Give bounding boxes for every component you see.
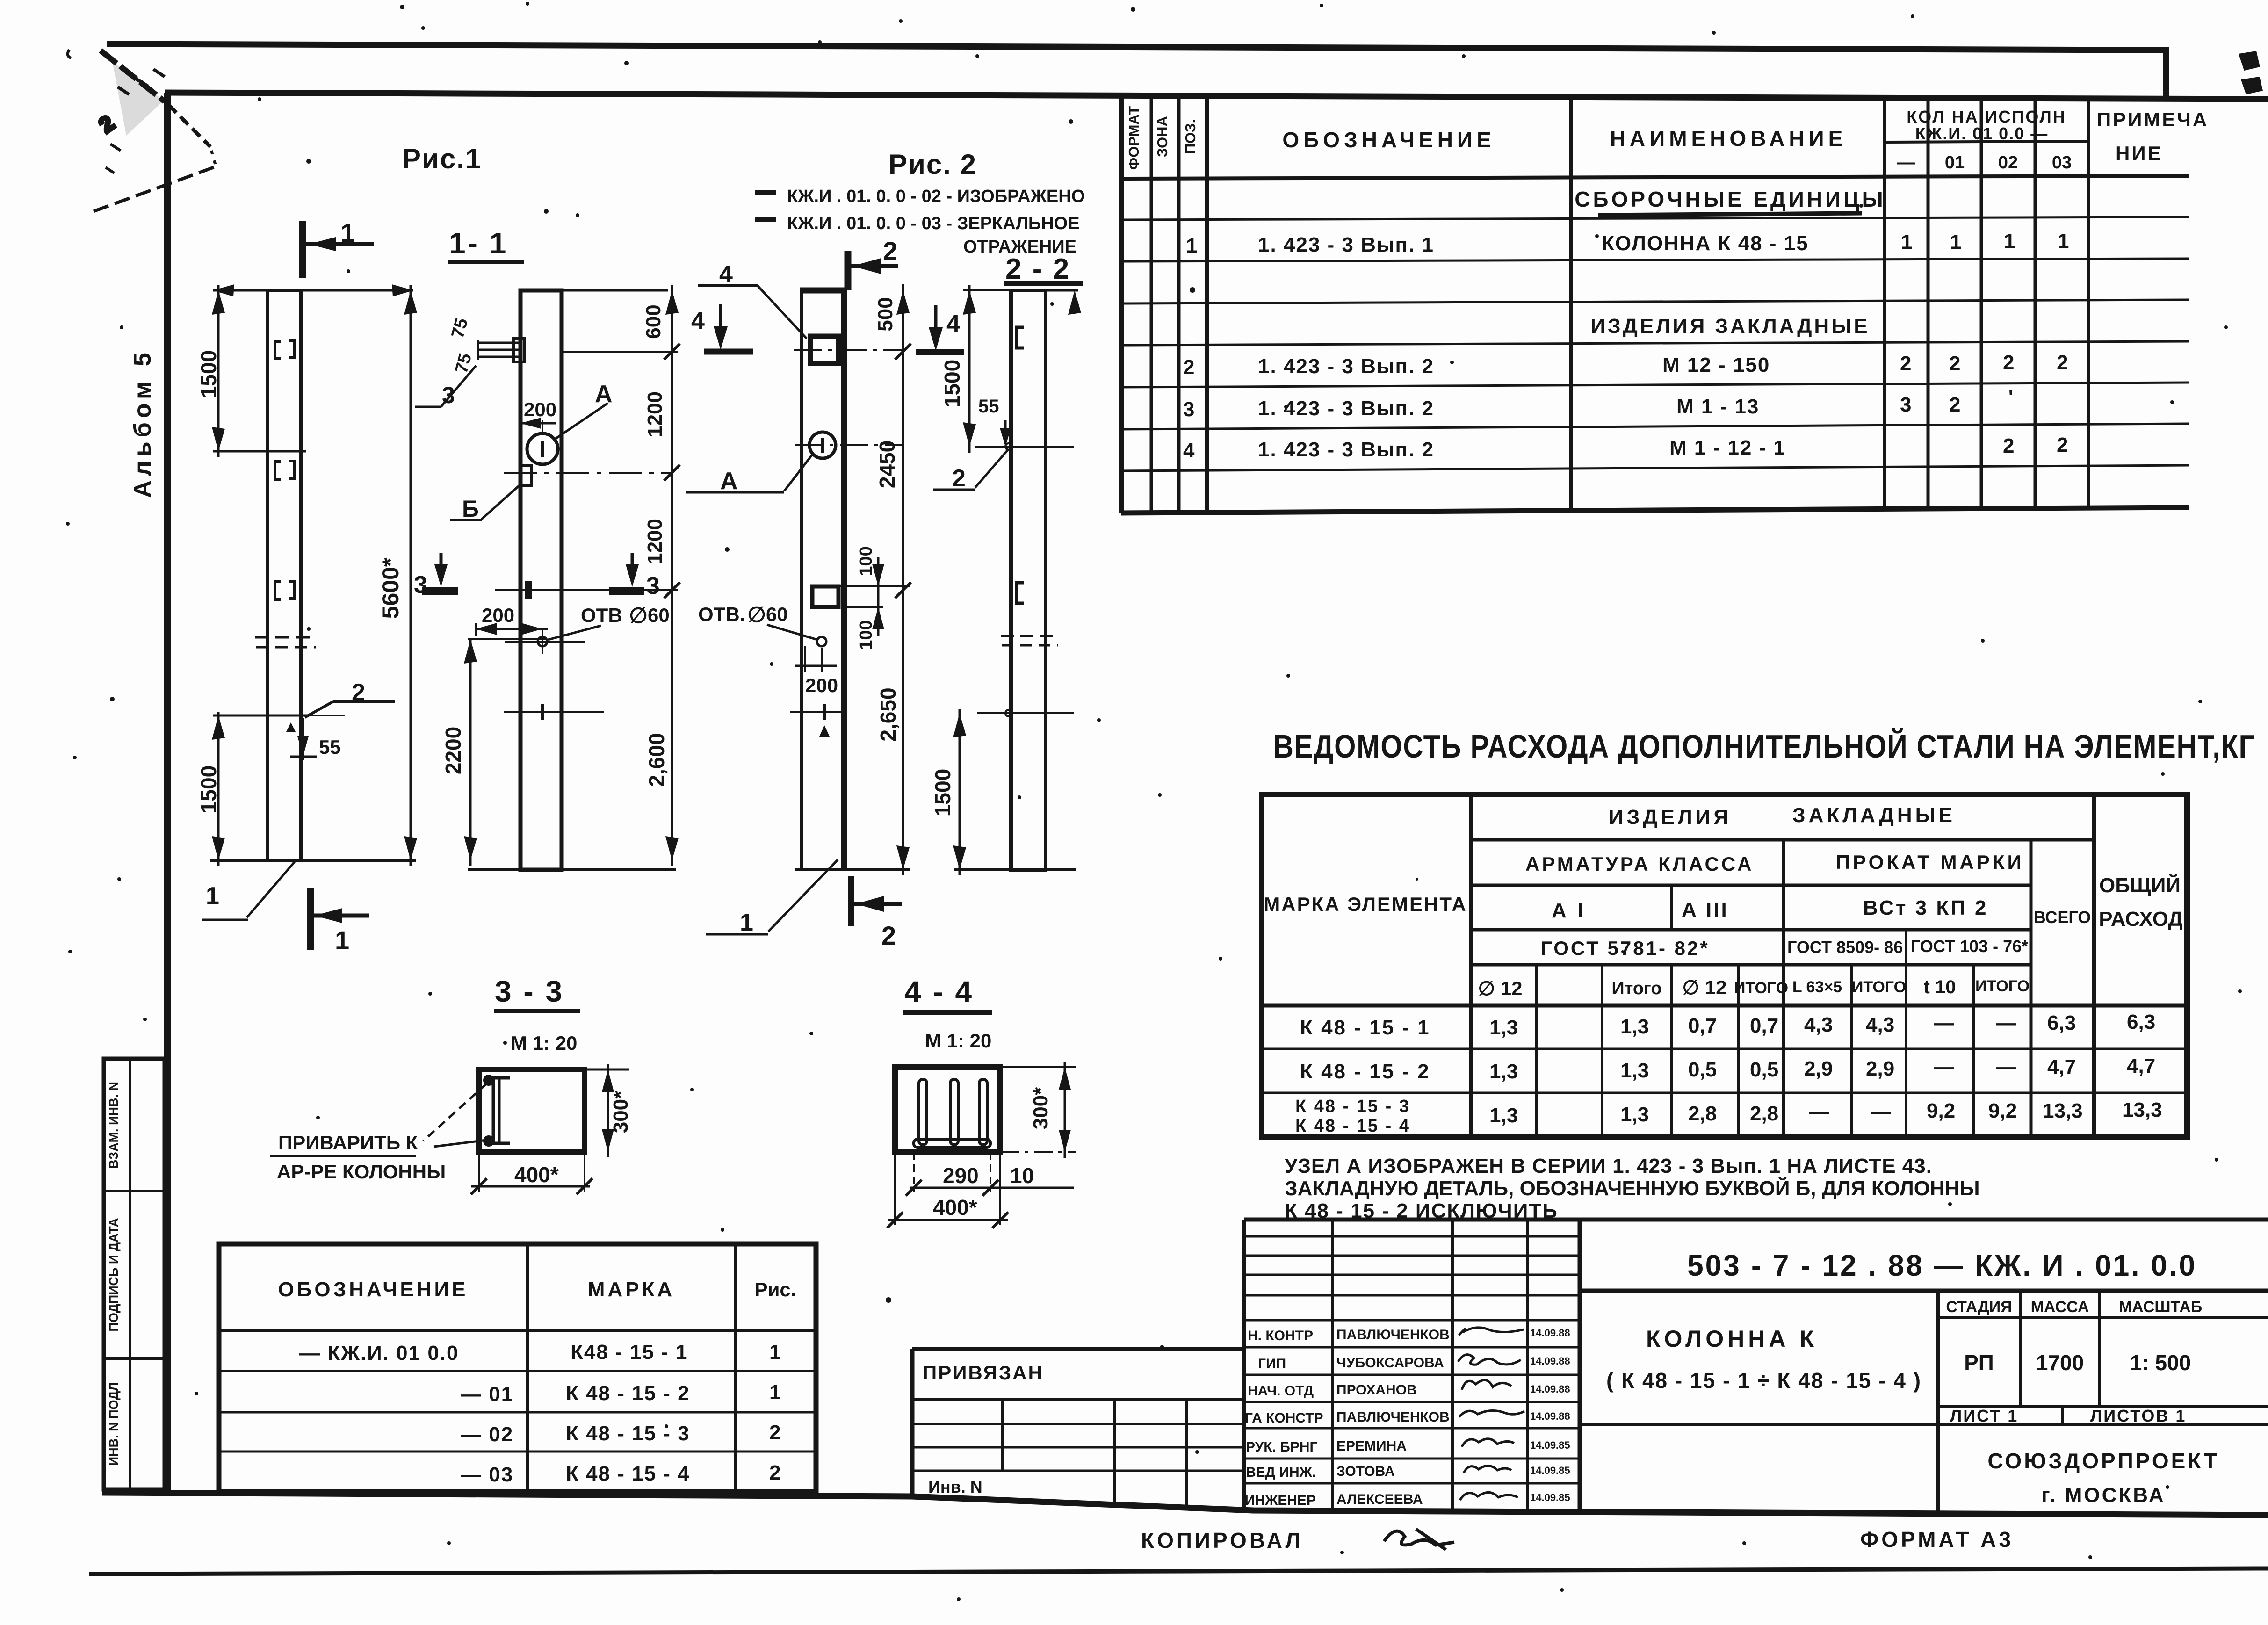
svg-text:КОПИРОВАЛ: КОПИРОВАЛ xyxy=(1141,1528,1303,1553)
svg-text:4,3: 4,3 xyxy=(1804,1013,1833,1036)
node A circle ris2 xyxy=(809,432,836,458)
svg-text:КЖ.И . 01. 0. 0 - 02 - ИЗОБРАЖ: КЖ.И . 01. 0. 0 - 02 - ИЗОБРАЖЕНО xyxy=(787,187,1085,206)
svg-text:Рис. 2: Рис. 2 xyxy=(888,149,977,180)
signature grid xyxy=(1578,1220,1582,1513)
svg-text:4,3: 4,3 xyxy=(1866,1013,1894,1036)
svg-text:ИТОГО: ИТОГО xyxy=(1734,979,1788,997)
svg-text:К48 - 15 - 1: К48 - 15 - 1 xyxy=(571,1341,688,1364)
svg-text:2: 2 xyxy=(2003,351,2014,374)
section mark 1 bottom xyxy=(307,888,314,950)
embedded mark pair top xyxy=(275,341,295,599)
svg-text:ГИП: ГИП xyxy=(1258,1356,1286,1372)
svg-text:ОБЩИЙ: ОБЩИЙ xyxy=(2099,873,2181,897)
svg-text:13,3: 13,3 xyxy=(2122,1098,2162,1121)
svg-text:300*: 300* xyxy=(609,1091,632,1133)
section mark 1 top xyxy=(299,221,306,278)
leader 3 xyxy=(415,406,441,408)
svg-text:—: — xyxy=(1934,1011,1954,1034)
section mark 4 right xyxy=(934,305,938,346)
svg-text:СБОРОЧНЫЕ ЕДИНИЦЫ: СБОРОЧНЫЕ ЕДИНИЦЫ xyxy=(1575,187,1885,211)
svg-text:ГОСТ 8509- 86: ГОСТ 8509- 86 xyxy=(1787,938,1903,957)
svg-text:2: 2 xyxy=(769,1421,780,1444)
svg-text:АР-РЕ КОЛОННЫ: АР-РЕ КОЛОННЫ xyxy=(277,1161,446,1183)
svg-text:г. МОСКВА: г. МОСКВА xyxy=(2041,1484,2165,1507)
svg-text:1: 1 xyxy=(2058,230,2069,253)
svg-text:13,3: 13,3 xyxy=(2043,1099,2083,1122)
svg-text:2: 2 xyxy=(883,236,897,266)
svg-text:∅: ∅ xyxy=(629,603,648,628)
svg-text:1: 1 xyxy=(1901,231,1912,253)
svg-text:1500: 1500 xyxy=(196,766,221,813)
kol sub divider xyxy=(1885,141,2088,142)
svg-text:2,8: 2,8 xyxy=(1750,1102,1778,1125)
svg-text:1: 1 xyxy=(740,909,753,936)
svg-text:ВЕД ИНЖ.: ВЕД ИНЖ. xyxy=(1246,1465,1316,1480)
svg-text:А: А xyxy=(595,381,613,408)
signature rows text xyxy=(1245,1327,1450,1508)
svg-text:ЧУБОКСАРОВА: ЧУБОКСАРОВА xyxy=(1336,1355,1444,1371)
svg-text:НАИМЕНОВАНИЕ: НАИМЕНОВАНИЕ xyxy=(1610,126,1847,151)
svg-text:1,3: 1,3 xyxy=(1620,1059,1649,1082)
stadia massa masshtab xyxy=(1938,1316,2268,1319)
svg-text:—: — xyxy=(1996,1011,2016,1034)
right dim chain 600 1200 1200 2600 xyxy=(671,285,673,866)
dim 1500 upper vertical xyxy=(217,285,220,457)
svg-text:01: 01 xyxy=(1945,153,1965,173)
svg-text:2: 2 xyxy=(881,921,896,950)
dim 5600 right vertical xyxy=(410,285,412,866)
svg-text:100: 100 xyxy=(856,620,876,650)
bolts top left pos 3 xyxy=(478,339,525,362)
svg-text:6,3: 6,3 xyxy=(2047,1011,2076,1034)
svg-text:ИТОГО: ИТОГО xyxy=(1852,978,1906,996)
svg-text:4: 4 xyxy=(946,311,960,338)
svg-text:200: 200 xyxy=(482,604,514,626)
leader 1 bottom xyxy=(247,862,295,917)
svg-text:14.09.85: 14.09.85 xyxy=(1530,1465,1570,1476)
svg-text:5600*: 5600* xyxy=(377,557,404,619)
bottom line of elevation dim xyxy=(210,859,416,862)
svg-text:1,3: 1,3 xyxy=(1489,1060,1518,1083)
svg-text:АРМАТУРА КЛАССА: АРМАТУРА КЛАССА xyxy=(1525,853,1754,875)
svg-text:— 03: — 03 xyxy=(461,1463,513,1486)
svg-text:ФОРМАТ: ФОРМАТ xyxy=(1126,106,1142,170)
signatures squiggles xyxy=(1458,1328,1524,1500)
svg-text:3: 3 xyxy=(442,382,455,408)
svg-text:—: — xyxy=(1996,1055,2016,1078)
svg-text:ГА КОНСТР: ГА КОНСТР xyxy=(1245,1410,1323,1426)
wire frame top border xyxy=(165,93,2268,99)
svg-text:2: 2 xyxy=(1900,352,1911,375)
svg-text:9,2: 9,2 xyxy=(1988,1099,2017,1122)
svg-text:t 10: t 10 xyxy=(1924,977,1956,997)
svg-text:1,3: 1,3 xyxy=(1620,1015,1649,1038)
level triangle mark xyxy=(286,722,296,732)
svg-text:14.09.88: 14.09.88 xyxy=(1530,1355,1570,1367)
svg-text:МАРКА: МАРКА xyxy=(588,1278,675,1301)
horizontals xyxy=(1471,838,2094,842)
svg-text:1,3: 1,3 xyxy=(1620,1103,1649,1126)
svg-text:1: 1 xyxy=(1950,231,1961,253)
svg-text:60: 60 xyxy=(766,603,788,625)
bottom captions xyxy=(1141,1527,2014,1553)
svg-text:ЗОНА: ЗОНА xyxy=(1154,116,1170,157)
svg-text:Н. КОНТР: Н. КОНТР xyxy=(1248,1328,1313,1343)
wire bottom outer long line xyxy=(89,1568,2268,1574)
svg-text:1. 423 - 3 Вып. 2: 1. 423 - 3 Вып. 2 xyxy=(1258,397,1434,420)
svg-text:': ' xyxy=(2008,387,2013,407)
svg-text:Б: Б xyxy=(462,496,479,522)
svg-text:Рис.: Рис. xyxy=(755,1278,796,1300)
svg-text:ИНВ. N ПОДЛ: ИНВ. N ПОДЛ xyxy=(107,1382,121,1466)
legend line 2 xyxy=(755,217,776,222)
svg-text:ОБОЗНАЧЕНИЕ: ОБОЗНАЧЕНИЕ xyxy=(278,1278,469,1301)
svg-text:А: А xyxy=(720,468,738,495)
box 4-4 xyxy=(895,1067,1000,1152)
svg-text:М 1 - 13: М 1 - 13 xyxy=(1676,395,1759,418)
svg-text:2: 2 xyxy=(769,1461,780,1484)
svg-text:ГОСТ 103 - 76*: ГОСТ 103 - 76* xyxy=(1911,937,2028,956)
svg-text:1,3: 1,3 xyxy=(1489,1104,1518,1127)
svg-text:∅ 12: ∅ 12 xyxy=(1478,977,1523,999)
svg-text:—: — xyxy=(1897,152,1915,173)
svg-text:ПРИВЯЗАН: ПРИВЯЗАН xyxy=(923,1362,1044,1384)
svg-text:ЗОТОВА: ЗОТОВА xyxy=(1336,1464,1394,1479)
svg-text:14.09.85: 14.09.85 xyxy=(1530,1492,1570,1503)
svg-text:К 48 - 15 - 4: К 48 - 15 - 4 xyxy=(1295,1116,1410,1136)
dim 300 right xyxy=(607,1064,609,1157)
svg-text:2: 2 xyxy=(2057,433,2068,456)
plate pos4 top xyxy=(810,336,838,363)
svg-text:М 1 - 12 - 1: М 1 - 12 - 1 xyxy=(1669,436,1786,459)
svg-text:—: — xyxy=(1934,1055,1954,1078)
dim 55 small xyxy=(302,718,304,760)
svg-text:ВЗАМ. ИНВ. N: ВЗАМ. ИНВ. N xyxy=(107,1082,121,1169)
svg-text:55: 55 xyxy=(978,396,999,417)
svg-text:ПРОХАНОВ: ПРОХАНОВ xyxy=(1336,1382,1417,1398)
svg-text:ПАВЛЮЧЕНКОВ: ПАВЛЮЧЕНКОВ xyxy=(1336,1327,1450,1343)
svg-text:НИЕ: НИЕ xyxy=(2116,142,2163,164)
weld leaders dashed xyxy=(423,1084,486,1141)
svg-text:14.09.88: 14.09.88 xyxy=(1530,1410,1570,1422)
channel plate inside xyxy=(493,1078,510,1143)
break dashed lines mid column xyxy=(255,637,316,647)
plate B on left face xyxy=(521,465,531,486)
svg-text:1. 423 - 3 Вып. 1: 1. 423 - 3 Вып. 1 xyxy=(1258,233,1434,256)
svg-text:М 12 - 150: М 12 - 150 xyxy=(1662,354,1770,376)
svg-text:ОБОЗНАЧЕНИЕ: ОБОЗНАЧЕНИЕ xyxy=(1282,128,1495,152)
svg-text:400*: 400* xyxy=(933,1195,977,1220)
plate mark mid xyxy=(525,581,532,599)
svg-text:К 48 - 15 - 3: К 48 - 15 - 3 xyxy=(1295,1097,1410,1116)
svg-text:55: 55 xyxy=(319,736,341,758)
svg-text:6,3: 6,3 xyxy=(2127,1011,2155,1033)
dot row xyxy=(1190,287,1195,293)
svg-text:1500: 1500 xyxy=(931,769,955,816)
svg-text:Рис.1: Рис.1 xyxy=(402,143,482,174)
svg-text:РУК. БРНГ: РУК. БРНГ xyxy=(1246,1439,1318,1455)
dates column xyxy=(1530,1327,1570,1503)
svg-text:— 02: — 02 xyxy=(461,1423,513,1446)
svg-text:—: — xyxy=(1809,1100,1829,1123)
svg-text:4: 4 xyxy=(719,261,733,288)
leader 1 ris2 xyxy=(768,859,838,932)
svg-text:2: 2 xyxy=(952,465,966,492)
outer box xyxy=(1262,794,2187,1137)
svg-text:200: 200 xyxy=(524,398,556,420)
svg-text:2: 2 xyxy=(1183,356,1194,379)
svg-text:2: 2 xyxy=(1949,393,1960,416)
svg-text:АЛЕКСЕЕВА: АЛЕКСЕЕВА xyxy=(1336,1492,1423,1507)
svg-text:ЗАКЛАДНЫЕ: ЗАКЛАДНЫЕ xyxy=(1792,804,1956,827)
svg-text:1200: 1200 xyxy=(643,519,666,564)
dim 2200 left xyxy=(469,639,472,866)
svg-text:2450: 2450 xyxy=(875,441,899,488)
centerline plate top xyxy=(794,349,903,351)
right dim chain 500 2450 2650 xyxy=(902,284,904,875)
svg-text:А I: А I xyxy=(1552,899,1586,922)
svg-text:ПРИМЕЧА: ПРИМЕЧА xyxy=(2097,108,2209,130)
dim 1500 bottom xyxy=(959,709,961,875)
wire outer top border line xyxy=(107,44,2166,50)
section 1-1 body xyxy=(520,290,562,870)
svg-text:14.09.88: 14.09.88 xyxy=(1530,1383,1570,1395)
svg-text:500: 500 xyxy=(874,297,897,331)
svg-text:4: 4 xyxy=(1183,439,1195,462)
legend line 1 xyxy=(755,190,776,195)
svg-text:К 48 - 15 - 2: К 48 - 15 - 2 xyxy=(566,1382,690,1405)
svg-text:ГОСТ 5781- 82*: ГОСТ 5781- 82* xyxy=(1541,937,1710,959)
svg-text:100: 100 xyxy=(856,546,876,576)
svg-text:К 48 - 15 - 4: К 48 - 15 - 4 xyxy=(566,1462,690,1485)
svg-text:( К 48 - 15 - 1 ÷ К 48 - 15: ( К 48 - 15 - 1 ÷ К 48 - 15 - 4 ) xyxy=(1606,1368,1921,1393)
svg-text:1200: 1200 xyxy=(643,391,666,437)
svg-text:Альбом 5: Альбом 5 xyxy=(129,348,156,498)
svg-text:60: 60 xyxy=(648,604,670,626)
svg-text:1500: 1500 xyxy=(196,350,221,398)
mid anchor tick ris2 xyxy=(790,711,847,713)
svg-text:ВСЕГО: ВСЕГО xyxy=(2034,908,2091,927)
dim 300 right xyxy=(1000,1066,1076,1068)
svg-text:ЗАКЛАДНУЮ ДЕТАЛЬ, ОБОЗНАЧЕНН: ЗАКЛАДНУЮ ДЕТАЛЬ, ОБОЗНАЧЕННУЮ БУКВОЙ Б,… xyxy=(1285,1176,1980,1200)
table borders xyxy=(1119,96,1124,513)
svg-text:ВЕДОМОСТЬ РАСХОДА ДОПОЛНИТ: ВЕДОМОСТЬ РАСХОДА ДОПОЛНИТЕЛЬНОЙ СТАЛИ Н… xyxy=(1273,728,2255,765)
svg-text:3: 3 xyxy=(1183,398,1194,421)
bottom of ris2 column xyxy=(795,868,910,871)
svg-text:290: 290 xyxy=(943,1163,979,1188)
svg-text:МАСШТАБ: МАСШТАБ xyxy=(2119,1298,2202,1316)
svg-text:2: 2 xyxy=(2057,351,2068,374)
header bottom xyxy=(1121,176,2189,179)
three anchor slots xyxy=(914,1079,990,1148)
name cell xyxy=(1936,1291,1940,1514)
row lines xyxy=(1121,217,2189,220)
svg-text:1: 1 xyxy=(335,925,349,955)
svg-text:∅ 12: ∅ 12 xyxy=(1683,976,1727,998)
dim 1500 lower vertical xyxy=(217,712,220,866)
svg-text:1500: 1500 xyxy=(940,360,964,407)
svg-text:Итого: Итого xyxy=(1611,979,1661,998)
svg-text:А III: А III xyxy=(1682,898,1729,921)
svg-text:2: 2 xyxy=(352,679,365,706)
svg-text:2 - 2: 2 - 2 xyxy=(1005,253,1070,285)
svg-text:КОЛОННА К: КОЛОННА К xyxy=(1646,1326,1818,1352)
svg-text:ПОЗ.: ПОЗ. xyxy=(1182,119,1199,154)
break dashes 2-2 xyxy=(1001,636,1058,645)
svg-text:—: — xyxy=(1871,1100,1891,1123)
svg-text:1: 1 xyxy=(1186,234,1197,257)
svg-text:2,8: 2,8 xyxy=(1688,1102,1717,1125)
svg-text:К 48 - 15 - 1: К 48 - 15 - 1 xyxy=(1300,1016,1430,1039)
left edge boxes xyxy=(104,1059,165,1489)
svg-text:ИНЖЕНЕР: ИНЖЕНЕР xyxy=(1245,1493,1316,1508)
column K48 elevation ris2 body xyxy=(800,289,803,870)
svg-text:ВСт 3 КП 2: ВСт 3 КП 2 xyxy=(1863,896,1988,919)
svg-text:ПОДПИСЬ И ДАТА: ПОДПИСЬ И ДАТА xyxy=(107,1218,121,1331)
svg-text:РАСХОД: РАСХОД xyxy=(2099,908,2182,931)
svg-text:ПРИВАРИТЬ К: ПРИВАРИТЬ К xyxy=(278,1132,418,1154)
svg-text:14.09.85: 14.09.85 xyxy=(1530,1439,1570,1451)
svg-text:1. 423 - 3 Вып. 2: 1. 423 - 3 Вып. 2 xyxy=(1258,355,1434,378)
svg-text:М 1: 20: М 1: 20 xyxy=(511,1032,577,1054)
svg-text:14.09.88: 14.09.88 xyxy=(1530,1327,1570,1339)
line at hole level xyxy=(975,446,1074,448)
svg-text:4: 4 xyxy=(691,308,705,335)
svg-text:600: 600 xyxy=(642,304,665,339)
svg-text:ЛИСТОВ 1: ЛИСТОВ 1 xyxy=(2090,1406,2186,1425)
svg-text:КЖ.И . 01. 0. 0 - 03 - ЗЕРКАЛЬ: КЖ.И . 01. 0. 0 - 03 - ЗЕРКАЛЬНОЕ xyxy=(787,214,1080,233)
svg-text:9,2: 9,2 xyxy=(1927,1099,1955,1122)
svg-text:0,5: 0,5 xyxy=(1688,1058,1717,1081)
svg-text:L 63×5: L 63×5 xyxy=(1792,978,1842,996)
svg-text:3: 3 xyxy=(414,571,427,599)
wire sheet number box divider top right xyxy=(2163,47,2169,99)
svg-text:2,9: 2,9 xyxy=(1866,1057,1894,1080)
svg-text:ПАВЛЮЧЕНКОВ: ПАВЛЮЧЕНКОВ xyxy=(1336,1409,1450,1425)
svg-text:3: 3 xyxy=(1900,393,1911,416)
svg-text:ЛИСТ 1: ЛИСТ 1 xyxy=(1950,1406,2018,1425)
svg-text:М 1: 20: М 1: 20 xyxy=(925,1030,991,1052)
svg-text:4,7: 4,7 xyxy=(2127,1054,2155,1077)
svg-text:1. 423 - 3 Вып. 2: 1. 423 - 3 Вып. 2 xyxy=(1258,438,1434,461)
box 3-3 xyxy=(479,1069,585,1152)
svg-text:1: 1 xyxy=(769,1381,780,1404)
svg-text:К 48 - 15 - 2: К 48 - 15 - 2 xyxy=(1300,1060,1430,1083)
svg-text:400*: 400* xyxy=(514,1163,559,1187)
svg-text:КОЛОННА К 48 - 15: КОЛОННА К 48 - 15 xyxy=(1602,232,1809,255)
svg-text:1: 1 xyxy=(340,218,355,247)
notes under vedomost xyxy=(1285,1155,1980,1222)
designation band xyxy=(1580,1289,2268,1293)
dim 290 and 10 xyxy=(913,1152,915,1192)
svg-text:ПРОКАТ МАРКИ: ПРОКАТ МАРКИ xyxy=(1836,851,2024,873)
svg-text:ИЗДЕЛИЯ ЗАКЛАДНЫЕ: ИЗДЕЛИЯ ЗАКЛАДНЫЕ xyxy=(1590,315,1870,338)
svg-text:300*: 300* xyxy=(1029,1087,1052,1129)
svg-text:4 - 4: 4 - 4 xyxy=(904,975,974,1009)
svg-text:СОЮЗДОРПРОЕКТ: СОЮЗДОРПРОЕКТ xyxy=(1987,1449,2219,1473)
svg-text:200: 200 xyxy=(805,674,838,696)
section 3-3 cut line xyxy=(495,589,604,591)
svg-text:КЖ.И. 01 0.0 —: КЖ.И. 01 0.0 — xyxy=(1915,124,2048,143)
leader 2 with bench mark xyxy=(303,715,345,716)
svg-text:2: 2 xyxy=(2003,434,2014,457)
c marks right face xyxy=(1017,327,1024,348)
column K48 elevation body xyxy=(267,290,301,860)
section mark 2 top xyxy=(845,251,852,290)
dim 400 bottom xyxy=(478,1152,480,1192)
svg-text:02: 02 xyxy=(1998,153,2018,173)
torn corner artifacts top-left xyxy=(68,50,217,211)
dim 1500 top left xyxy=(968,285,971,453)
verticals xyxy=(1469,794,1473,1137)
svg-text:НАЧ. ОТД: НАЧ. ОТД xyxy=(1248,1383,1314,1399)
svg-text:1700: 1700 xyxy=(2036,1351,2084,1375)
svg-text:— 01: — 01 xyxy=(461,1383,513,1406)
dim 400 bottom xyxy=(894,1152,896,1225)
middle plate with 100 100 dims xyxy=(812,586,838,607)
wire frame left border xyxy=(164,93,171,1494)
svg-text:СТАДИЯ: СТАДИЯ xyxy=(1946,1298,2012,1316)
svg-text:1- 1: 1- 1 xyxy=(449,226,508,260)
svg-text:ФОРМАТ А3: ФОРМАТ А3 xyxy=(1860,1527,2014,1552)
svg-text:2,650: 2,650 xyxy=(876,687,900,741)
dim line top 1500 width line xyxy=(213,289,413,292)
svg-text:Инв. N: Инв. N xyxy=(928,1477,982,1496)
verticals xyxy=(1150,97,1153,513)
svg-text:3 - 3: 3 - 3 xyxy=(495,975,564,1008)
svg-text:ИТОГО: ИТОГО xyxy=(1975,977,2030,995)
svg-text:2,9: 2,9 xyxy=(1804,1057,1833,1080)
svg-text:ОТВ: ОТВ xyxy=(581,604,622,626)
svg-text:1,3: 1,3 xyxy=(1489,1016,1518,1039)
list row xyxy=(1938,1405,2268,1408)
svg-text:2: 2 xyxy=(1949,352,1960,375)
svg-text:∅: ∅ xyxy=(747,602,766,627)
body 2-2 xyxy=(1011,290,1046,870)
svg-text:2200: 2200 xyxy=(441,727,465,774)
svg-text:0,7: 0,7 xyxy=(1688,1014,1717,1037)
svg-text:4,7: 4,7 xyxy=(2047,1055,2076,1078)
svg-text:ЕРЕМИНА: ЕРЕМИНА xyxy=(1336,1438,1407,1454)
sheet number fragment xyxy=(2239,51,2260,71)
section mark 2 bottom xyxy=(848,876,854,926)
svg-text:МАССА: МАССА xyxy=(2031,1298,2089,1316)
svg-text:К 48 - 15 - 3: К 48 - 15 - 3 xyxy=(566,1422,690,1445)
svg-text:03: 03 xyxy=(2052,153,2072,173)
svg-text:503 - 7 - 12 . 88 — КЖ. И . 01: 503 - 7 - 12 . 88 — КЖ. И . 01. 0.0 xyxy=(1687,1249,2197,1282)
dim 200 ris2 xyxy=(804,646,806,672)
svg-text:1: 1 xyxy=(769,1341,780,1364)
svg-text:ОТВ.: ОТВ. xyxy=(698,603,745,625)
svg-text:УЗЕЛ А ИЗОБРАЖЕН В С: УЗЕЛ А ИЗОБРАЖЕН В СЕРИИ 1. 423 - 3 Вып.… xyxy=(1285,1155,1932,1177)
leader 2 xyxy=(975,449,1009,488)
svg-text:1: 1 xyxy=(2004,230,2015,253)
svg-text:ИЗДЕЛИЯ: ИЗДЕЛИЯ xyxy=(1609,806,1732,829)
svg-text:1: 1 xyxy=(206,882,219,910)
bottom line of 1-1 xyxy=(468,868,676,871)
centerline at node A xyxy=(504,472,672,474)
svg-text:0,5: 0,5 xyxy=(1750,1058,1778,1081)
mid anchor tick xyxy=(504,711,604,713)
svg-text:РП: РП xyxy=(1964,1351,1994,1375)
lower hole line xyxy=(977,712,1074,714)
svg-text:1: 500: 1: 500 xyxy=(2130,1351,2191,1375)
svg-text:— КЖ.И. 01 0.0: — КЖ.И. 01 0.0 xyxy=(299,1342,459,1365)
svg-text:0,7: 0,7 xyxy=(1750,1014,1778,1037)
svg-text:10: 10 xyxy=(1010,1163,1034,1188)
svg-text:2,600: 2,600 xyxy=(644,733,669,787)
wire frame bottom border xyxy=(102,1493,2268,1515)
